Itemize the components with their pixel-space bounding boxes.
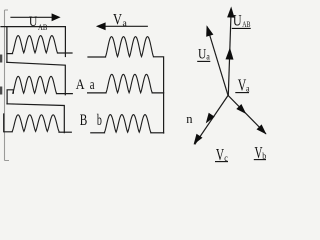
svg-text:V: V (113, 11, 122, 28)
svg-text:a: a (123, 18, 127, 28)
svg-text:AB: AB (242, 20, 250, 29)
svg-text:U: U (233, 13, 242, 30)
svg-text:a: a (90, 77, 95, 93)
svg-text:AB: AB (38, 22, 48, 32)
svg-text:U: U (198, 47, 206, 63)
svg-text:U: U (29, 14, 38, 30)
svg-text:a: a (246, 84, 250, 94)
svg-text:B: B (80, 112, 88, 129)
svg-text:a: a (206, 51, 210, 61)
svg-text:b: b (97, 112, 102, 129)
svg-text:n: n (186, 112, 193, 126)
svg-text:A: A (76, 77, 85, 93)
